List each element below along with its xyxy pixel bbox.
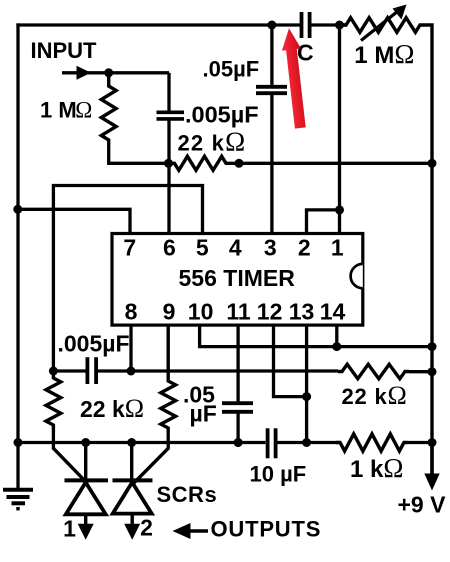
capacitor C1 .005uF input (plates): [157, 111, 185, 115]
SCR Q1 triangle: [66, 482, 106, 514]
SCR Q1 bar: [65, 478, 109, 482]
wire R1 bottom to 22k node: [109, 143, 169, 163]
svg-text:7: 7: [123, 235, 136, 261]
svg-text:2: 2: [140, 515, 153, 541]
capacitor C4 .05uF pin11 (plates): [222, 401, 253, 405]
svg-text:13: 13: [289, 299, 315, 325]
resistor R4 22 k&#937; left (zigzag): [46, 371, 61, 432]
svg-text:12: 12: [257, 299, 283, 325]
potentiometer wiper arrow: [361, 10, 400, 41]
wire R5 to SCR2 gate stub: [167, 432, 170, 450]
ground symbol: [16, 443, 19, 490]
wire input lead: [62, 71, 169, 74]
+9 V supply arrow: [430, 443, 433, 478]
resistor R6 22 k&#937; right (zigzag): [338, 364, 409, 378]
wire pin7 jog: [18, 209, 130, 234]
wire top-right corner / right rail: [424, 25, 432, 478]
svg-text:.005µF: .005µF: [58, 331, 130, 357]
SCR Q2 triangle: [113, 482, 152, 513]
wire pin1 vertical: [338, 25, 341, 234]
capacitor C (plates): [300, 12, 304, 38]
node top .05uF tap: [267, 21, 276, 30]
svg-text:INPUT: INPUT: [31, 38, 98, 63]
wire 22k top to right rail: [232, 162, 432, 165]
node pin13 bus junction: [302, 438, 311, 447]
SCR Q2 cathode lead: [130, 514, 133, 526]
wire pin2 jog: [307, 210, 340, 234]
node bus SCR2 junction: [127, 438, 136, 447]
wire pin5 jog: [53, 186, 202, 372]
resistor R5 22 k&#937; pin9 (zigzag): [161, 326, 176, 432]
svg-text:11: 11: [226, 299, 251, 325]
wire R4 to SCR1 gate stub: [52, 432, 55, 450]
svg-text:1 MΩ: 1 MΩ: [40, 98, 92, 123]
svg-text:14: 14: [320, 299, 346, 325]
wire pin6 vertical: [167, 73, 170, 113]
svg-text:OUTPUTS: OUTPUTS: [211, 517, 322, 542]
SCR Q1 cathode lead: [84, 514, 87, 526]
wire .005uF right lead to 22k right: [98, 369, 338, 372]
node pin11 bus junction: [234, 438, 243, 447]
wire pin11 vertical: [236, 326, 239, 403]
svg-text:.05µF: .05µF: [203, 57, 260, 82]
node rail 22k junction: [428, 367, 437, 376]
capacitor C2 .05uF (plates): [256, 85, 287, 89]
wire pin14 vertical: [335, 326, 338, 347]
SCR Q2 output arrowhead: [124, 524, 140, 540]
svg-text:1: 1: [331, 235, 344, 261]
svg-text:22 kΩ: 22 kΩ: [80, 394, 144, 423]
node pin8 junction: [127, 367, 136, 376]
svg-text:8: 8: [125, 299, 138, 325]
svg-text:22 kΩ: 22 kΩ: [342, 381, 408, 410]
wire .005uF left lead: [53, 369, 85, 372]
svg-text:556 TIMER: 556 TIMER: [179, 265, 296, 291]
wire bottom bus left: [18, 441, 266, 444]
wire bottom bus mid: [278, 441, 339, 444]
node input junction: [104, 68, 113, 77]
wire SCR1 gate diagonal: [53, 448, 87, 483]
node bus SCR1 junction: [81, 438, 90, 447]
node pin4 junction: [235, 159, 244, 168]
SCR Q1 output arrowhead: [78, 524, 94, 540]
svg-text:+9 V: +9 V: [398, 492, 447, 518]
svg-text:2: 2: [298, 235, 311, 261]
OUTPUTS pointer arrow: [186, 529, 208, 533]
resistor R3 22 k&#937; top (zigzag): [169, 156, 233, 170]
svg-text:10 µF: 10 µF: [250, 462, 307, 487]
svg-text:3: 3: [264, 235, 277, 261]
wire 1k to rail: [408, 441, 432, 444]
svg-text:5: 5: [196, 235, 209, 261]
node 22k-left junction: [164, 159, 173, 168]
wire pin3 vertical: [270, 25, 273, 87]
wire top bus right of C: [312, 23, 348, 26]
potentiometer R2 1 M&#937; (zigzag): [342, 18, 424, 33]
svg-text:1 MΩ: 1 MΩ: [354, 39, 414, 69]
wire pin8 vertical: [129, 326, 132, 371]
node left rail pin7 tap: [13, 205, 22, 214]
svg-text:4: 4: [229, 235, 242, 261]
node top pin1 tap: [335, 21, 344, 30]
node pin12-pin13 junction: [302, 392, 311, 401]
svg-text:1: 1: [63, 516, 76, 542]
node bus-left rail junction: [14, 438, 23, 447]
input arrowhead: [77, 66, 92, 80]
wire SCR2 gate diagonal: [134, 448, 168, 483]
capacitor C5 10uF (plates): [266, 428, 270, 458]
svg-text:SCRs: SCRs: [157, 482, 218, 507]
node bus 10uF-left junction: [234, 438, 243, 447]
capacitor C3 .005uF (plates): [86, 357, 90, 384]
svg-text:µF: µF: [190, 401, 217, 427]
IC notch: [351, 264, 363, 288]
svg-text:1 kΩ: 1 kΩ: [350, 453, 403, 483]
resistor R1 1 M&#937; input (zigzag): [101, 73, 116, 143]
wire pin10 jog to rail: [200, 326, 432, 347]
wire pin12 jog: [274, 326, 307, 397]
svg-text:22 kΩ: 22 kΩ: [178, 127, 247, 157]
svg-text:9: 9: [163, 299, 176, 325]
wire pin13 vertical: [305, 326, 308, 443]
SCR Q2 bar: [113, 478, 153, 482]
wire 22k right to rail: [409, 370, 432, 373]
node pin14 junction: [332, 342, 341, 351]
SCR Q2 anode lead: [130, 443, 133, 481]
node 22k-left-bottom junction: [49, 367, 58, 376]
IC U1 556 timer body: [112, 234, 363, 326]
wire top bus left segment: [16, 23, 300, 26]
svg-text:10: 10: [188, 299, 214, 325]
svg-text:6: 6: [163, 235, 176, 261]
node pin2-pin1 junction: [335, 205, 344, 214]
node rail pin10 junction: [428, 342, 437, 351]
node bus rail junction: [428, 438, 437, 447]
svg-text:C: C: [297, 40, 314, 66]
wire left rail: [16, 23, 19, 444]
node top-right rail at 22k: [428, 159, 437, 168]
resistor R7 1 k&#937; (zigzag): [336, 434, 408, 451]
SCR Q1 anode lead: [84, 443, 87, 481]
svg-text:.005µF: .005µF: [185, 102, 259, 128]
